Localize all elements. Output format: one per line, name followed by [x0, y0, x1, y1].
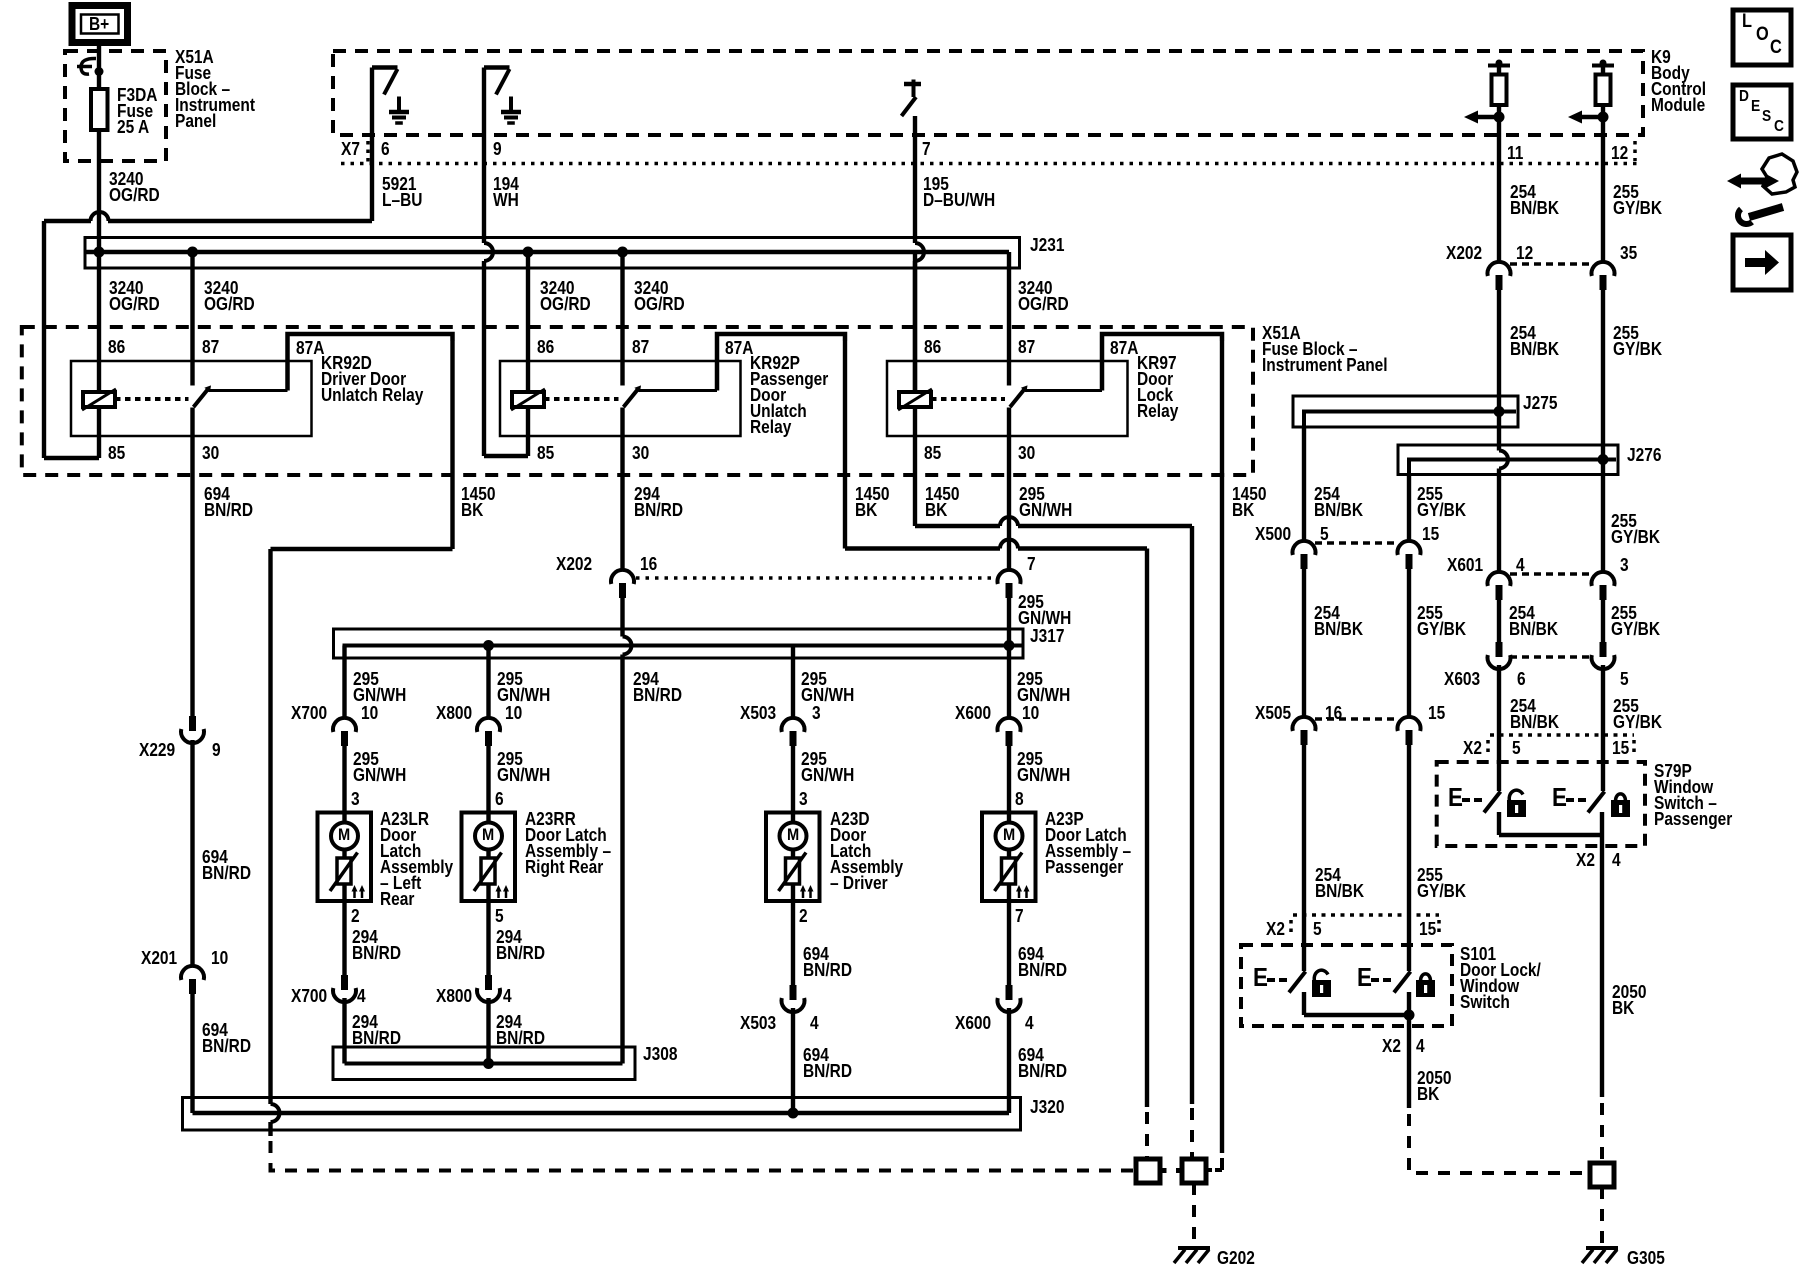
relay KR92D pin 87: [202, 339, 219, 355]
X202 pin 16 label: [640, 556, 657, 572]
door latch assembly A23P box: [982, 813, 1036, 902]
connector X201 pin 10: [181, 966, 204, 994]
X600-4 pin: [1025, 1015, 1034, 1031]
G305 label: [1627, 1250, 1665, 1266]
X600 lower label: [955, 1015, 991, 1031]
J231 label: [1030, 237, 1064, 253]
wire 694 BN/RD relay KR92D pin30 to X229: [190, 408, 194, 717]
wire 694 BN/RD label b: [202, 849, 251, 881]
wire 1450 BK relay KR97 pin85 ground run: [915, 517, 1192, 1157]
connector X700 pin 4: [333, 975, 356, 1002]
wire 254 label h: [1315, 867, 1364, 899]
icon C2: [1774, 119, 1784, 135]
relay KR92D name: [321, 355, 423, 403]
door latch assembly A23RR box: [462, 813, 516, 902]
wire 195 D-BU/WH pin7 to relay KR97 coil: [915, 116, 924, 392]
wire 2050 BK S79P to G305 (dashed): [1600, 1103, 1604, 1160]
wire 294 BN/RD X202-16 through J317 to J308: [623, 598, 632, 1064]
fuse block label: [175, 49, 255, 129]
wire 254 label g: [1510, 698, 1559, 730]
wire label above X600: [1017, 671, 1070, 703]
ground G305 symbol: [1582, 1248, 1618, 1263]
wire 295 GN/WH X202-7 to J317: [1007, 598, 1011, 646]
X500 pin15: [1422, 526, 1439, 542]
relay KR97 pin 87: [1018, 339, 1035, 355]
J275 label: [1523, 395, 1557, 411]
icon arrows and wrench: [1727, 154, 1797, 224]
wire 694 BN/RD X201 to J320: [190, 994, 194, 1113]
wire 294 BN/RD label a: [634, 486, 683, 518]
wire 295 GN/WH J317 to X600 upper: [1007, 646, 1011, 719]
wire label above X800: [497, 671, 550, 703]
wire 694 label A23D b: [803, 1047, 852, 1079]
A23LR bottom pin: [351, 908, 360, 924]
wire 3240 OG/RD label x634: [634, 280, 685, 312]
wire 194 WH label: [493, 176, 519, 208]
wire 255 GY/BK label a: [1613, 184, 1662, 216]
X800-10 pin: [505, 705, 522, 721]
connector X2 row above S79P: [1488, 735, 1634, 757]
S101 name: [1460, 946, 1541, 1010]
door latch assembly A23D box: [766, 813, 820, 902]
splice pack J231: [85, 238, 1020, 269]
fuse block X51A (instrument panel) dashed box top-left: [65, 51, 166, 161]
A23D name: [830, 811, 903, 891]
X503 lower label: [740, 1015, 776, 1031]
connector X202 pin 12: [1488, 262, 1595, 290]
connector X600 upper: [997, 718, 1020, 746]
relay KR97 pin85 wire 1450 BK: [913, 407, 917, 526]
wire 255 label c: [1417, 486, 1466, 518]
relay KR92P pin 86: [537, 339, 554, 355]
X503-4 pin: [810, 1015, 819, 1031]
S101 unlock switch: [1267, 972, 1306, 1016]
relay KR97 pin 30: [1018, 445, 1035, 461]
icon D: [1739, 89, 1749, 105]
wire 295 GN/WH label a: [1019, 486, 1072, 518]
A23P bottom pin: [1015, 908, 1024, 924]
ground splice square right: [1182, 1159, 1206, 1183]
A23RR thermal protector: [474, 850, 502, 892]
BCM internal switch pin 7: [902, 80, 922, 117]
wire 694 BN/RD X600-4 to J320: [1007, 1008, 1011, 1113]
wire 254 BN/BK label a: [1510, 184, 1559, 216]
S79P lock switch: [1566, 792, 1605, 813]
wire 255 label e: [1611, 605, 1660, 637]
X603 pin5: [1620, 671, 1629, 687]
X2 S101 out label: [1382, 1038, 1401, 1054]
BCM internal ground switch pin 6: [372, 68, 409, 222]
S79P unlock padlock (open): [1507, 790, 1526, 817]
wire to A23RR motor: [486, 740, 490, 823]
wire 294 BN/RD X700-4 to J308: [342, 998, 346, 1064]
X601 pin4: [1516, 557, 1525, 573]
wire label below X600: [1017, 751, 1070, 783]
wire 1450 BK label r2: [855, 486, 889, 518]
connector X505 pin 15: [1398, 717, 1421, 745]
pin 6 label: [381, 141, 390, 157]
wire 3240 OG/RD label: [109, 171, 160, 203]
G202 label: [1217, 1250, 1255, 1266]
X202 pin 12 label: [1516, 245, 1533, 261]
connector X500 pin 5: [1293, 541, 1399, 569]
wire 3240 OG/RD label x1018: [1018, 280, 1069, 312]
A23LR name: [380, 811, 453, 907]
connector X500 pin 15: [1398, 541, 1421, 569]
door latch assembly A23LR box: [318, 813, 372, 902]
S79P unlock E: [1448, 789, 1463, 805]
wire to A23LR motor: [342, 740, 346, 823]
wire 294 BN/RD relay KR92P pin30 to X202 pin16: [620, 408, 624, 571]
relay KR97 switch blade: [1009, 252, 1028, 407]
X503 upper label: [740, 705, 776, 721]
wire 694 BN/RD A23P to X600 pin4: [1007, 901, 1011, 985]
splice pack J276: [1398, 445, 1618, 475]
X603 pin6: [1517, 671, 1526, 687]
wire 294 label A23RR b: [496, 1014, 545, 1046]
wire from A23D bottom: [791, 884, 795, 901]
relay KR97 box: [887, 361, 1128, 436]
B+ label: [89, 16, 109, 32]
connector X201 label: [141, 950, 177, 966]
K9 BCM label: [1651, 49, 1706, 113]
A23D top pin: [799, 791, 808, 807]
connector X800 pin 4: [477, 975, 500, 1002]
fuse F3DA 25A: [91, 89, 108, 130]
relay KR92P name: [750, 355, 828, 435]
X2-15 pin b: [1419, 921, 1436, 937]
BCM output driver pin 12: [1568, 60, 1614, 124]
connector X202 label: [1446, 245, 1482, 261]
X700-4 pin: [357, 988, 366, 1004]
J320 label: [1030, 1099, 1064, 1115]
pin 9 label: [493, 141, 502, 157]
switch S79P dashed box: [1437, 762, 1645, 846]
wire 3240 OG/RD label x540: [540, 280, 591, 312]
connector X700 upper: [333, 718, 356, 746]
X2-15 pin a: [1612, 740, 1629, 756]
A23P thermal protector: [995, 850, 1023, 892]
A23LR thermal protector: [330, 850, 358, 892]
wire 255 label d: [1611, 513, 1660, 545]
wire label below X700: [353, 751, 406, 783]
S101 lock padlock (closed): [1416, 974, 1435, 997]
wire 5921 L-BU label: [382, 176, 422, 208]
relay KR92D pin 86: [108, 339, 125, 355]
wire label above X503: [801, 671, 854, 703]
relay KR92P coil: [511, 252, 619, 410]
relay KR92D pin 30: [202, 445, 219, 461]
wire 254 BN/BK X601 to X603: [1497, 598, 1501, 642]
ground G202 symbol: [1174, 1248, 1210, 1263]
A23LR direction arrows: [352, 885, 366, 898]
splice pack J317: [334, 629, 1024, 658]
S101 lock E: [1357, 969, 1372, 985]
X2-5 pin a: [1512, 740, 1521, 756]
pin 12 label: [1611, 145, 1628, 161]
wire 294 BN/RD X800-4 to J308: [486, 998, 490, 1064]
wire 255 GY/BK X601 to X603: [1601, 598, 1605, 642]
connector X202-16 label: [556, 556, 592, 572]
wire to A23P motor: [1007, 740, 1011, 823]
wire to A23D motor: [791, 740, 795, 823]
wire 255 GY/BK J276 to X601 pin3: [1601, 460, 1605, 573]
connector X503 upper: [782, 718, 805, 746]
fuse block X51A dashed box (relay section): [22, 327, 1253, 475]
wire 255 GY/BK X202 to J276: [1601, 290, 1605, 460]
wire 254 BN/BK X505 to S101: [1302, 742, 1306, 971]
X2 S101 label: [1266, 921, 1285, 937]
wire 255 GY/BK J276 corner to X500 pin15: [1407, 475, 1411, 542]
X505 pin16: [1325, 705, 1342, 721]
wire 294 label A23LR: [352, 929, 401, 961]
wire 694 BN/RD label a: [204, 486, 253, 518]
wire B+ to fuse F3DA: [97, 40, 101, 89]
A23RR motor: [475, 823, 502, 850]
wire 1450 BK label r3: [925, 486, 959, 518]
relay KR92P box: [500, 361, 741, 436]
connector X505 label: [1255, 705, 1291, 721]
A23P direction arrows: [1016, 885, 1030, 898]
wire 1450 BK label r1: [461, 486, 495, 518]
wire 195 D-BU/WH label: [923, 176, 995, 208]
J317 label: [1030, 628, 1064, 644]
wire 255 GY/BK BCM pin12 to X202: [1601, 117, 1605, 262]
S79P lock E: [1552, 789, 1567, 805]
A23P top pin: [1015, 791, 1024, 807]
A23P name: [1045, 811, 1131, 875]
wire 294 BN/RD label mid: [633, 671, 682, 703]
X2 S79P out label: [1576, 852, 1595, 868]
connector X601 pin 3: [1592, 572, 1615, 600]
A23RR top pin: [495, 791, 504, 807]
wire 2050 BK label a: [1612, 984, 1646, 1016]
connector X505 pin 16: [1293, 717, 1399, 745]
relay KR97 pin 87A: [1110, 340, 1138, 356]
relay KR92P switch blade: [623, 252, 642, 407]
A23LR motor: [331, 823, 358, 850]
icon O: [1756, 27, 1769, 43]
wire 254 label c: [1314, 486, 1363, 518]
wire 295 GN/WH label b: [1018, 594, 1071, 626]
BCM internal ground switch pin 9: [484, 68, 521, 457]
wire 295 GN/WH J317 to X700 upper: [342, 646, 346, 719]
wire 294 BN/RD A23RR to X800 pin4: [486, 901, 490, 975]
relay KR92P pin 87A: [725, 340, 753, 356]
wire 294 label A23RR: [496, 929, 545, 961]
wire 254 BN/BK X500 to X505: [1302, 566, 1306, 717]
X2 S79P label: [1463, 740, 1482, 756]
X2-5 pin b: [1313, 921, 1322, 937]
icon S: [1762, 109, 1771, 125]
icon L: [1742, 14, 1752, 30]
dashed link to ground G202: [1192, 1183, 1196, 1245]
X229 pin 9 label: [212, 742, 221, 758]
wire 2050 BK label b: [1417, 1070, 1451, 1102]
wire 694 label A23D: [803, 946, 852, 978]
S79P unlock switch: [1462, 792, 1501, 836]
wire 694 BN/RD X229 to X201: [190, 740, 194, 966]
wire from A23LR bottom: [342, 884, 346, 901]
fuse terminal hook: [77, 58, 104, 76]
relay KR92D pin 85: [108, 445, 125, 461]
wire 1450 BK label r4: [1232, 486, 1266, 518]
splice pack J275: [1293, 396, 1518, 427]
relay KR92P pin 30: [632, 445, 649, 461]
X505 pin15: [1428, 705, 1445, 721]
connector X7 label: [341, 141, 360, 157]
X202 pin 35 label: [1620, 245, 1637, 261]
connector X202 pin 7: [997, 570, 1020, 598]
wire 3240 OG/RD fuse to bus J231: [97, 130, 101, 252]
pin 7 label: [922, 141, 931, 157]
J308 label: [643, 1046, 677, 1062]
X700 lower label: [291, 988, 327, 1004]
connector X503 pin 4: [782, 985, 805, 1012]
X500 pin5: [1320, 526, 1329, 542]
wire 1450 BK relay KR92D 87A to splice S-left: [271, 341, 1134, 1171]
S101 unlock padlock (open): [1312, 970, 1331, 997]
wire 254 label e: [1509, 605, 1558, 637]
X51A relay box label: [1262, 325, 1388, 373]
relay KR92P contact 87A: [639, 334, 846, 391]
wire 255 GY/BK label b: [1613, 325, 1662, 357]
wire 254 BN/BK X603 to S79P: [1497, 665, 1501, 791]
connector X603 label: [1444, 671, 1480, 687]
wire 694 BN/RD label c: [202, 1022, 251, 1054]
S79P output junction: [1499, 812, 1602, 1097]
connector X603 pin 6: [1488, 642, 1593, 669]
connector X600 pin 4: [997, 985, 1020, 1012]
relay KR97 contact 87A: [1025, 334, 1222, 391]
wire 5921 L-BU ground run to relay KR92D pin85: [44, 212, 372, 458]
S101 output junction: [1304, 992, 1415, 1108]
connector X601 label: [1447, 557, 1483, 573]
connector X603 pin 5: [1592, 642, 1615, 669]
relay KR97 pin 86: [924, 339, 941, 355]
wire 255 GY/BK X500 to X505: [1407, 566, 1411, 717]
wire 694 BN/RD A23D to X503 pin4: [791, 901, 795, 985]
X700 upper label: [291, 705, 327, 721]
wire 295 GN/WH J317 to X800 upper: [486, 646, 490, 719]
S101 unlock E: [1253, 969, 1268, 985]
relay KR92D coil lower pin85 wire: [97, 407, 101, 436]
wire 294 BN/RD A23LR to X700 pin4: [342, 901, 346, 975]
wire 255 GY/BK X505 to S101: [1407, 742, 1411, 971]
X2-4 pin a: [1612, 852, 1621, 868]
S79P lock padlock (closed): [1611, 794, 1630, 817]
ground splice square left: [1136, 1159, 1160, 1183]
X800 lower label: [436, 988, 472, 1004]
wire from A23RR bottom: [486, 884, 490, 901]
wire 254 BN/BK X202 to J275: [1497, 290, 1501, 412]
A23D motor M letter: [787, 827, 799, 843]
relay KR92D switch blade: [193, 252, 212, 407]
ground splice square G305: [1590, 1163, 1614, 1187]
splice pack J320: [183, 1098, 1021, 1131]
wire 255 label f: [1417, 605, 1466, 637]
relay KR92D contact 87A: [209, 334, 453, 391]
A23P motor: [996, 823, 1023, 850]
wire 294 label A23LR b: [352, 1014, 401, 1046]
wire label below X503: [801, 751, 854, 783]
icon arrow box: [1733, 235, 1791, 290]
wire 254 BN/BK BCM pin11 to X202: [1497, 117, 1501, 262]
BCM output driver pin 11: [1464, 60, 1510, 124]
connector X229 label: [139, 742, 175, 758]
A23D bottom pin: [799, 908, 808, 924]
A23D motor: [780, 823, 807, 850]
splice pack J308: [333, 1047, 635, 1080]
relay KR92P pin 85: [537, 445, 554, 461]
X600-10 pin: [1022, 705, 1039, 721]
pin 11 label: [1507, 145, 1523, 161]
relay KR97 coil: [898, 252, 1005, 410]
icon C: [1770, 40, 1782, 56]
wire 694 label A23P b: [1018, 1047, 1067, 1079]
wire 295 GN/WH J317 to X503 upper: [791, 646, 795, 719]
fuse F3DA label: [117, 87, 157, 135]
X800-4 pin: [503, 988, 512, 1004]
wire 254 BN/BK label b: [1510, 325, 1559, 357]
J276 label: [1627, 447, 1661, 463]
A23RR motor M letter: [482, 827, 494, 843]
A23RR direction arrows: [496, 885, 510, 898]
connector X229 pin 9: [181, 716, 204, 743]
A23D direction arrows: [800, 885, 814, 898]
X800 upper label: [436, 705, 472, 721]
connector X202 pin 35: [1592, 262, 1615, 290]
wire 295 GN/WH relay KR97 pin30 to X202 pin7: [1007, 408, 1011, 571]
X201 pin 10 label: [211, 950, 228, 966]
wire 3240 OG/RD label x204: [204, 280, 255, 312]
wire 3240 OG/RD label x109: [109, 280, 160, 312]
wire 254 BN/BK J275 corner to X500 pin5: [1302, 427, 1306, 541]
icon DESC box: [1733, 85, 1791, 139]
power symbol B+ box: [72, 6, 128, 43]
wire 1450 BK relay KR97 87A ground run: [1207, 341, 1223, 1170]
A23RR name: [525, 811, 611, 875]
X600 upper label: [955, 705, 991, 721]
body control module K9 dashed box: [333, 51, 1643, 135]
X202 pin 7 label: [1027, 556, 1036, 572]
A23RR bottom pin: [495, 908, 504, 924]
icon LOC box: [1733, 10, 1791, 65]
A23LR top pin: [351, 791, 360, 807]
wire 1450 BK relay KR92P 87A ground run: [845, 341, 1147, 1157]
wire 254 BN/BK J275 through J276 to X601: [1499, 412, 1508, 573]
wire 255 label h: [1417, 867, 1466, 899]
relay KR92P pin 87: [632, 339, 649, 355]
wire 694 label A23P: [1018, 946, 1067, 978]
relay KR97 pin 85: [924, 445, 941, 461]
wire 2050 BK S101 to G305 (dashed): [1409, 1114, 1587, 1173]
connector X2 row above S101: [1291, 915, 1439, 937]
S79P name: [1654, 763, 1732, 827]
connector X601 pin 4: [1488, 572, 1593, 600]
connector X202 pin 16: [611, 570, 996, 598]
connector X500 label: [1255, 526, 1291, 542]
wire 255 label g: [1613, 698, 1662, 730]
wire label above X700: [353, 671, 406, 703]
A23D thermal protector: [779, 850, 807, 892]
icon E2: [1751, 99, 1760, 115]
X601 pin3: [1620, 557, 1629, 573]
wire label below X800: [497, 751, 550, 783]
X700-10 pin: [361, 705, 378, 721]
relay KR92P coil lower pin85 wire: [526, 407, 530, 436]
connector X800 upper: [477, 718, 500, 746]
